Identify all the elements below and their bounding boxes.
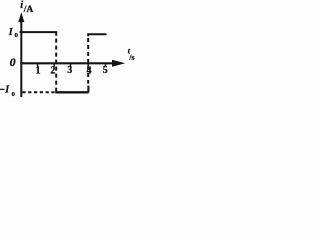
svg-text:2: 2 <box>50 66 55 77</box>
svg-text:/A: /A <box>23 5 34 15</box>
svg-text:0: 0 <box>10 55 16 69</box>
svg-text:0: 0 <box>15 32 18 39</box>
svg-text:1: 1 <box>36 66 41 77</box>
svg-text:/s: /s <box>128 53 134 62</box>
svg-text:5: 5 <box>103 65 108 76</box>
svg-text:0: 0 <box>12 91 15 98</box>
svg-text:i: i <box>20 0 23 11</box>
svg-text:4: 4 <box>87 66 92 77</box>
svg-text:3: 3 <box>67 65 72 76</box>
